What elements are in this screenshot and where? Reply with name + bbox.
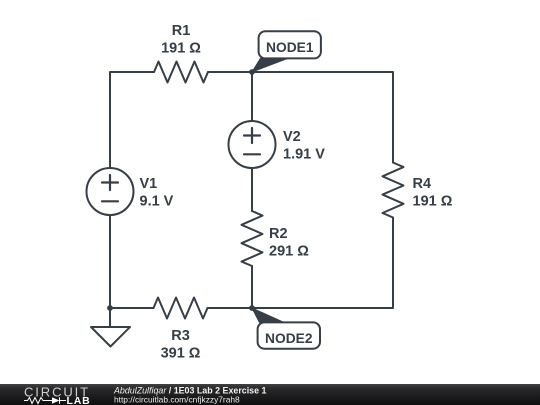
voltage source V1 circle — [87, 168, 134, 215]
node junction dot at NODE2 — [249, 305, 255, 311]
svg-text:9.1 V: 9.1 V — [140, 193, 174, 209]
resistor R1 — [154, 62, 208, 83]
wire node1 down to V2 top — [251, 72, 253, 121]
svg-text:R2: R2 — [269, 226, 288, 242]
svg-text:1.91 V: 1.91 V — [283, 147, 325, 163]
wire V2 bottom to R2 top — [251, 168, 253, 211]
node NODE1 callout box — [259, 31, 321, 58]
wire R1 to top-right corner and down to R4 — [208, 72, 393, 163]
logo schematic doodle: wire, resistor, diode — [24, 397, 66, 404]
voltage source V2 circle — [229, 121, 276, 168]
node NODE1 callout pointer — [252, 58, 288, 72]
wire R3 to bottom-left junction — [110, 307, 154, 309]
svg-text:R1: R1 — [172, 23, 191, 39]
wire R2 bottom to node2 — [251, 266, 253, 308]
svg-text:191 Ω: 191 Ω — [161, 40, 201, 56]
node junction dot at ground — [107, 305, 113, 311]
V1 plus sign — [102, 175, 118, 190]
svg-text:http://circuitlab.com/cnfjkzzy: http://circuitlab.com/cnfjkzzy7rah8 — [114, 395, 240, 405]
node NODE2 callout box — [258, 322, 320, 348]
V2 minus sign — [244, 153, 260, 155]
svg-text:191 Ω: 191 Ω — [413, 194, 453, 210]
svg-text:V2: V2 — [283, 129, 301, 145]
svg-text:R4: R4 — [413, 176, 432, 192]
svg-text:V1: V1 — [140, 176, 158, 192]
node NODE2 callout pointer — [252, 308, 284, 322]
resistor R4 — [383, 163, 404, 218]
resistor R2 — [242, 211, 263, 266]
wire R4 down to bottom-right corner and left to R3 — [208, 218, 393, 309]
node A junction dot at NODE1 — [249, 69, 255, 75]
svg-text:291 Ω: 291 Ω — [269, 243, 309, 259]
resistor R3 — [154, 298, 208, 319]
svg-text:R3: R3 — [171, 328, 190, 344]
V1 minus sign — [102, 200, 118, 202]
wire top-left corner: left rail up to R1 lead — [110, 72, 154, 168]
ground symbol triangle — [91, 327, 130, 347]
V2 plus sign — [244, 128, 260, 143]
svg-text:NODE1: NODE1 — [266, 40, 314, 55]
svg-text:391 Ω: 391 Ω — [161, 345, 201, 361]
wire V1 bottom to bottom rail — [109, 215, 111, 308]
svg-text:NODE2: NODE2 — [265, 331, 313, 346]
ground stem — [109, 308, 111, 327]
svg-text:LAB: LAB — [67, 395, 91, 405]
